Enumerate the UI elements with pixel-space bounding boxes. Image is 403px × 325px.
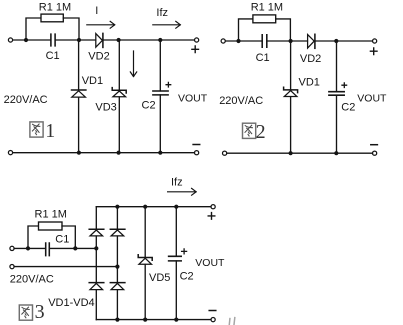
- svg-text:VOUT: VOUT: [357, 92, 387, 104]
- label + output: [208, 213, 215, 220]
- wire R1 left lead: [28, 226, 39, 248]
- resistor R1 (fig.2): [253, 15, 276, 23]
- output terminal + (fig.1): [195, 38, 199, 42]
- diode VD2 (series, fig.1): [96, 34, 103, 48]
- svg-text:3: 3: [35, 301, 45, 323]
- node: junction dot left of C1: [236, 39, 240, 43]
- top rail wire (fig.3): [96, 206, 211, 208]
- wire bridge left column middle: [95, 236, 97, 282]
- wire rail to VD1: [78, 41, 80, 90]
- node: junction dot bridge left column AC input: [94, 246, 98, 250]
- node: junction dot VD1 bottom: [77, 151, 81, 155]
- wire C1 to VD2: [56, 39, 96, 41]
- wire row1 left to C1: [14, 247, 45, 249]
- figure label 图3: [19, 305, 32, 320]
- svg-text:I: I: [95, 5, 98, 17]
- label + polarity C2: [166, 82, 171, 87]
- svg-text:220V/AC: 220V/AC: [10, 273, 54, 285]
- svg-text:Ifz: Ifz: [171, 177, 183, 189]
- figure label 图2: [243, 123, 256, 138]
- input terminal L (fig.2): [221, 39, 225, 43]
- wire C2 to bottom rail: [336, 95, 338, 153]
- capacitor C2 (fig.3): [169, 256, 182, 261]
- node: junction dot top of C2 branch: [158, 38, 162, 42]
- node: junction dot bridge right column AC input: [115, 265, 119, 269]
- svg-text:VD2: VD2: [300, 53, 321, 65]
- label + polarity C2: [182, 249, 187, 254]
- wire VD1 to bottom rail: [290, 97, 292, 153]
- node: junction dot bridge right column bottom: [115, 318, 119, 322]
- svg-text:R1 1M: R1 1M: [35, 208, 67, 220]
- bridge diode D2 (upper right): [110, 228, 125, 230]
- svg-text:VOUT: VOUT: [178, 92, 208, 104]
- wire row2 to bridge right column: [14, 266, 117, 268]
- node: junction dot VD3 bottom: [117, 151, 121, 155]
- wire VD5 to bottom rail: [144, 265, 146, 320]
- svg-text:C1: C1: [256, 52, 270, 64]
- wire bridge right column middle: [116, 236, 118, 282]
- bridge diode D4 (lower right): [110, 282, 125, 284]
- diode VD1 (shunt, fig.1): [72, 89, 86, 91]
- node: junction dot VD1 bottom: [289, 151, 293, 155]
- node: junction dot C2 bottom: [174, 318, 178, 322]
- capacitor C1 (fig.2): [262, 35, 267, 47]
- node: junction dot right of C1: [77, 38, 81, 42]
- wire C2 to bottom rail: [175, 261, 177, 320]
- svg-text:C1: C1: [55, 234, 69, 246]
- capacitor C1 (fig.1): [51, 34, 55, 46]
- output terminal + (fig.3): [211, 205, 215, 209]
- capacitor C1 (fig.3): [46, 243, 50, 256]
- wire top-left to C1: [13, 39, 51, 41]
- zener diode VD1 (fig.2): [284, 87, 298, 92]
- svg-text:VD2: VD2: [88, 50, 109, 62]
- label + output: [192, 46, 199, 53]
- svg-text:VD1-VD4: VD1-VD4: [48, 297, 94, 309]
- resistor R1 (fig.3): [39, 222, 63, 230]
- figure label 图1: [30, 122, 43, 137]
- wire R1 left lead: [26, 18, 41, 40]
- svg-text:220V/AC: 220V/AC: [4, 94, 48, 106]
- wire bridge right column bottom: [116, 290, 118, 320]
- wire rail to VD1: [290, 42, 292, 90]
- bottom rail wire (fig.2): [227, 152, 373, 154]
- wire VD3 to bottom rail: [118, 97, 120, 153]
- node: junction dot C2 bottom: [334, 151, 338, 155]
- output terminal + (fig.2): [373, 39, 377, 43]
- wire C1 to bridge left column: [50, 247, 96, 249]
- svg-text:1: 1: [45, 120, 55, 142]
- svg-text:220V/AC: 220V/AC: [219, 95, 263, 107]
- wire R1 right lead: [62, 226, 75, 248]
- wire VD1 to bottom rail: [78, 97, 80, 152]
- node: junction dot R1 right: [73, 246, 77, 250]
- current arrow Ifz (fig.3): [168, 188, 197, 195]
- svg-text:VD1: VD1: [299, 77, 320, 89]
- node: junction dot C2 top: [174, 205, 178, 209]
- wire rail to C2: [336, 41, 338, 92]
- bottom rail wire (fig.1): [13, 152, 195, 154]
- capacitor C2 (fig.1): [153, 91, 168, 95]
- svg-text:2: 2: [256, 121, 266, 143]
- node: junction dot bridge right column top: [115, 205, 119, 209]
- input terminal L (fig.1): [8, 38, 12, 42]
- node: junction dot R1 left: [26, 246, 30, 250]
- svg-text:VD1: VD1: [82, 75, 103, 87]
- wire R1 left lead: [239, 19, 253, 41]
- svg-text:VOUT: VOUT: [195, 257, 225, 269]
- zener diode VD3: [112, 88, 126, 93]
- svg-text:R1 1M: R1 1M: [251, 1, 283, 13]
- wire rail to bridge diode D1: [95, 207, 97, 229]
- node: junction dot left of C1: [24, 38, 28, 42]
- wire rail to C2: [175, 207, 177, 257]
- wire C1 to VD2: [267, 40, 307, 42]
- wire rail to VD5: [144, 207, 146, 258]
- bridge diode D1 (upper left): [89, 228, 104, 230]
- svg-text:C2: C2: [180, 271, 194, 283]
- input terminal L1 (fig.3): [10, 246, 14, 250]
- label - output: [371, 144, 378, 146]
- wire C2 to bottom rail: [159, 95, 161, 153]
- wire VD2 to output terminal: [103, 39, 194, 41]
- svg-text:C2: C2: [341, 101, 355, 113]
- input terminal L2 (fig.3): [10, 265, 14, 269]
- current arrow down (charging): [130, 51, 136, 77]
- wire R1 right lead: [276, 19, 291, 40]
- svg-text:C2: C2: [142, 100, 156, 112]
- label - output: [209, 310, 216, 312]
- node: junction dot C2 bottom: [158, 151, 162, 155]
- label + polarity C2: [342, 83, 347, 88]
- wire rail to C2: [159, 40, 161, 91]
- label + output: [370, 48, 377, 55]
- node: junction dot VD5 bottom: [143, 318, 147, 322]
- node: junction dot top of VD3 branch: [117, 38, 121, 42]
- watermark remnant: [229, 318, 235, 325]
- diode VD2 (series, fig.2): [308, 35, 315, 49]
- svg-text:Ifz: Ifz: [156, 7, 168, 19]
- node: junction dot top of C2 branch: [334, 39, 338, 43]
- svg-text:VD5: VD5: [149, 272, 170, 284]
- current arrow Ifz (fig.1): [153, 21, 181, 28]
- svg-text:C1: C1: [46, 50, 60, 62]
- input terminal bottom-left (fig.2): [223, 151, 227, 155]
- svg-text:VD3: VD3: [95, 101, 116, 113]
- node: junction dot right of C1: [289, 39, 293, 43]
- output terminal - (fig.2): [373, 151, 377, 155]
- wire rail to bridge diode D2: [116, 207, 118, 229]
- wire rail to VD3: [118, 40, 120, 90]
- zener diode VD5: [138, 255, 152, 260]
- current arrow I: [87, 21, 115, 28]
- wire VD2 to output terminal: [315, 40, 373, 42]
- output terminal - (fig.3): [211, 318, 215, 322]
- input terminal bottom-left (fig.1): [8, 151, 12, 155]
- wire bridge left column bottom: [95, 290, 97, 320]
- bottom rail wire (fig.3): [96, 319, 211, 321]
- node: junction dot VD5 top: [143, 205, 147, 209]
- capacitor C2 (fig.2): [329, 92, 344, 96]
- svg-text:R1 1M: R1 1M: [39, 1, 71, 13]
- wire R1 right lead: [63, 18, 79, 39]
- bridge diode D3 (lower left): [89, 282, 104, 284]
- resistor R1: [41, 14, 63, 22]
- label - output: [193, 144, 200, 146]
- wire top-left to C1: [225, 40, 261, 42]
- output terminal - (fig.1): [195, 151, 199, 155]
